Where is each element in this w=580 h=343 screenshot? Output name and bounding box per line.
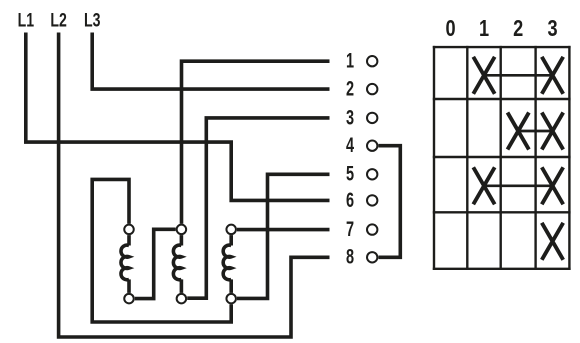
- contact X row3 col3: [542, 167, 563, 204]
- svg-text:8: 8: [346, 245, 354, 268]
- contact X row2 col2: [508, 113, 529, 150]
- svg-text:7: 7: [346, 217, 354, 240]
- link row1: [484, 74, 553, 77]
- table header 3: [547, 16, 557, 42]
- svg-text:6: 6: [346, 188, 354, 211]
- coil W3: [223, 225, 236, 304]
- wire L2 feed: down, bottom bus, up to terminal 8: [59, 33, 330, 338]
- contact X row3 col1: [473, 167, 494, 204]
- svg-text:2: 2: [513, 16, 523, 42]
- link row3: [484, 184, 553, 187]
- svg-text:1: 1: [479, 16, 489, 42]
- contact X row1 col1: [473, 57, 494, 94]
- svg-text:1: 1: [346, 49, 354, 72]
- svg-text:3: 3: [346, 106, 354, 129]
- wire L3 feed: down, right to terminal 2: [92, 33, 329, 90]
- contact X row4 col3: [542, 223, 563, 260]
- svg-text:L2: L2: [50, 9, 66, 31]
- terminal 4: [346, 133, 377, 156]
- terminal 5: [346, 162, 377, 185]
- svg-text:3: 3: [547, 16, 557, 42]
- node L3 label: [84, 9, 100, 31]
- terminal 1: [346, 49, 377, 72]
- contact table grid: [433, 46, 571, 270]
- wire L1 feed: down, right, down, to terminal 6: [26, 33, 330, 201]
- wire terminal 3 down and left to coil W2 bottom: [187, 118, 329, 298]
- contact X row1 col3: [542, 57, 563, 94]
- terminal 7: [346, 217, 377, 240]
- svg-text:L1: L1: [18, 9, 35, 31]
- contact X row2 col3: [542, 113, 563, 150]
- coil W2: [173, 225, 186, 304]
- wire coil W1 bottom to coil W2 top: [135, 229, 176, 298]
- svg-text:2: 2: [346, 77, 354, 100]
- svg-text:4: 4: [346, 133, 355, 156]
- svg-text:5: 5: [346, 162, 354, 185]
- wire bracket terminal 4 to terminal 8: [378, 146, 400, 258]
- table header 2: [513, 16, 523, 42]
- node L1 label: [18, 9, 35, 31]
- link row2: [518, 130, 552, 133]
- wire coil W3 bottom to coil W1 top (inner loop): [92, 179, 231, 322]
- terminal 6: [346, 188, 377, 211]
- terminal 8: [346, 245, 377, 268]
- table header 0: [446, 16, 456, 42]
- terminal 3: [346, 106, 377, 129]
- wire terminal 1 to coil W2 top: [182, 61, 330, 224]
- terminal 2: [346, 77, 377, 100]
- table header 1: [479, 16, 489, 42]
- wire terminal 5 down and left to coil W3 bottom: [237, 174, 330, 298]
- node L2 label: [50, 9, 66, 31]
- coil W1: [121, 225, 134, 304]
- svg-text:0: 0: [446, 16, 456, 42]
- wire terminal 7 to coil W3 top circle: [237, 228, 330, 232]
- svg-text:L3: L3: [84, 9, 100, 31]
